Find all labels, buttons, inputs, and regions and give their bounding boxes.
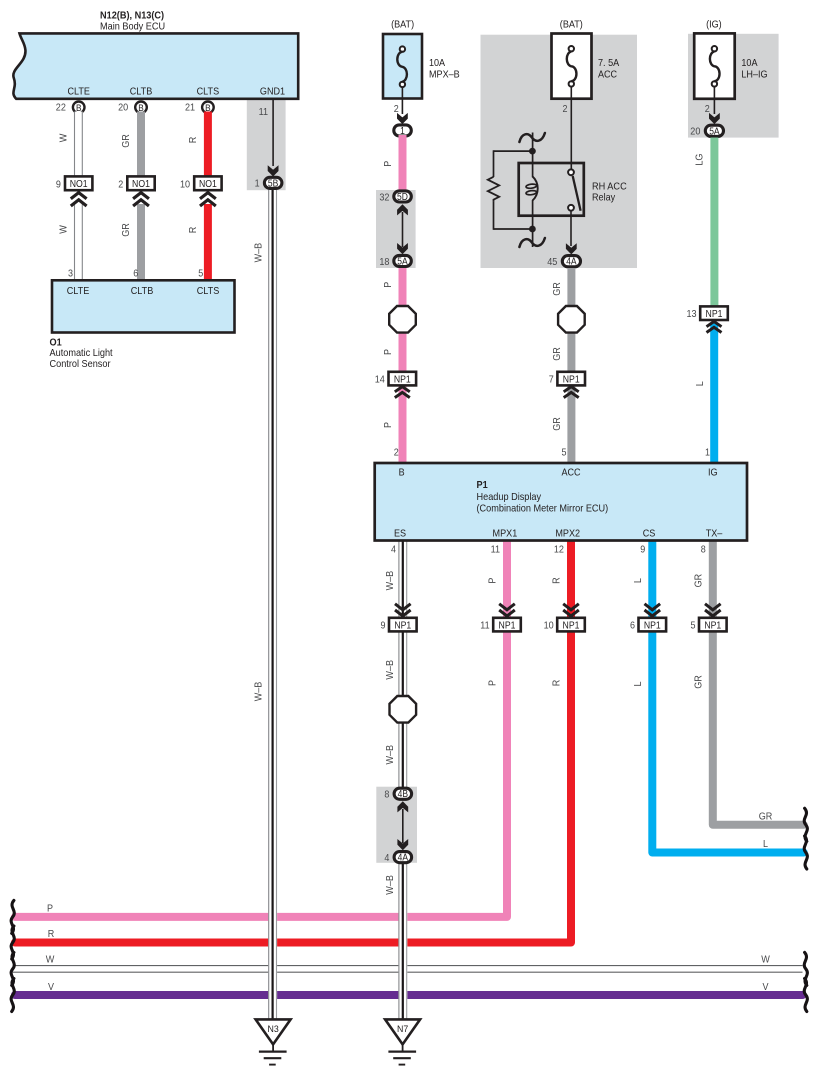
svg-text:W–B: W–B [385, 745, 396, 765]
relay switch contact bottom [568, 205, 574, 211]
relay switch contact top [568, 169, 574, 175]
svg-text:NP1: NP1 [706, 309, 723, 320]
arrow into 5B [268, 165, 279, 176]
connector NP1 pin 9 [389, 618, 417, 632]
svg-text:20: 20 [690, 127, 700, 138]
svg-text:NP1: NP1 [394, 620, 411, 631]
svg-text:NO1: NO1 [70, 179, 88, 190]
link wire 5D-5A [402, 212, 404, 247]
svg-text:Automatic Light: Automatic Light [50, 348, 113, 359]
relay coil wire [532, 163, 534, 177]
svg-text:CLTS: CLTS [197, 286, 220, 297]
arrow up to 5D [397, 204, 408, 215]
svg-text:18: 18 [379, 257, 389, 268]
svg-text:Relay: Relay [592, 193, 616, 204]
junction dot bottom [529, 226, 536, 233]
svg-text:11: 11 [259, 107, 269, 118]
connector 4A pin 45 [562, 256, 580, 267]
svg-text:(BAT): (BAT) [391, 20, 414, 31]
svg-text:2: 2 [394, 104, 399, 115]
wire R (red) MPX2 to left edge [15, 542, 571, 943]
svg-text:MPX1: MPX1 [493, 528, 518, 539]
svg-text:N12(B), N13(C): N12(B), N13(C) [100, 11, 164, 22]
svg-text:12: 12 [554, 544, 564, 555]
svg-text:MPX2: MPX2 [555, 528, 580, 539]
svg-text:W: W [761, 954, 770, 965]
svg-text:7: 7 [549, 374, 554, 385]
svg-text:L: L [695, 381, 706, 386]
fuse 10A LH-IG box [694, 33, 735, 98]
svg-text:R: R [552, 577, 563, 584]
svg-text:P: P [47, 904, 53, 915]
svg-text:TX–: TX– [706, 528, 723, 539]
svg-text:GR: GR [552, 282, 563, 296]
svg-text:P: P [488, 680, 499, 686]
svg-text:N7: N7 [397, 1024, 408, 1034]
svg-text:2: 2 [394, 447, 399, 458]
wire W-B from ES to splice 4B [398, 541, 407, 789]
wire W CLTE to NO1 [74, 112, 83, 178]
wavy break top [519, 133, 545, 142]
svg-text:(IG): (IG) [706, 20, 722, 31]
splice 4A pin 4 [394, 852, 412, 863]
svg-text:NP1: NP1 [704, 620, 721, 631]
svg-text:14: 14 [375, 374, 385, 385]
svg-text:(BAT): (BAT) [560, 20, 583, 31]
svg-text:L: L [633, 681, 644, 686]
connector NP1 pin 11 [493, 618, 521, 632]
splice 5D pin 32 [394, 191, 412, 202]
svg-text:NP1: NP1 [563, 620, 580, 631]
connector NP1 pin 14 [389, 372, 417, 386]
svg-text:W: W [46, 954, 55, 965]
connector NP1 pin 6 [639, 618, 667, 632]
ECU P1 Headup Display box [375, 463, 747, 541]
svg-text:11: 11 [480, 621, 490, 632]
wire R CLTS to NO1 [204, 112, 212, 178]
svg-text:6: 6 [133, 269, 138, 280]
ground N7 [385, 1019, 420, 1044]
svg-text:P: P [488, 577, 499, 583]
fuse 7.5A ACC box [552, 34, 592, 99]
svg-text:NP1: NP1 [644, 620, 661, 631]
svg-text:O1: O1 [50, 338, 62, 349]
svg-text:2: 2 [563, 104, 568, 115]
wire W-B from splice 4A to ground N7 [398, 863, 407, 1020]
resistor branch bottom wire [493, 202, 495, 230]
svg-text:10: 10 [180, 180, 190, 191]
svg-text:5B: 5B [268, 178, 278, 189]
relay coil top junction wire [532, 133, 534, 164]
svg-text:P: P [383, 161, 394, 167]
svg-text:R: R [188, 137, 199, 144]
svg-text:CLTB: CLTB [131, 286, 154, 297]
relay coil [533, 177, 538, 201]
svg-text:22: 22 [56, 102, 66, 113]
svg-text:10A: 10A [429, 58, 445, 69]
svg-text:13: 13 [687, 309, 697, 320]
connector 5B pin 1 [264, 177, 282, 188]
svg-text:CLTE: CLTE [67, 286, 90, 297]
relay switch blade [573, 176, 581, 211]
wire L NP1 to IG pin [710, 323, 718, 463]
svg-text:W–B: W–B [385, 660, 396, 680]
svg-text:5: 5 [562, 447, 567, 458]
wire P fuse side [399, 135, 407, 197]
svg-text:ACC: ACC [561, 468, 581, 479]
svg-text:W–B: W–B [385, 571, 396, 591]
wire W-B from GND1 5B to ground N3 [268, 190, 277, 1020]
svg-text:R: R [552, 680, 563, 687]
break brace V right [804, 979, 807, 1012]
shaded area GND1 branch [247, 100, 286, 191]
chevron into NP1 [395, 387, 410, 392]
svg-text:(Combination Meter Mirror ECU): (Combination Meter Mirror ECU) [477, 504, 609, 515]
svg-text:4B: 4B [398, 789, 408, 800]
svg-text:P: P [383, 282, 394, 288]
svg-text:LH–IG: LH–IG [741, 70, 767, 81]
svg-text:V: V [48, 982, 54, 993]
svg-text:V: V [763, 982, 769, 993]
svg-text:6: 6 [630, 621, 635, 632]
svg-text:5A: 5A [397, 257, 408, 268]
shaded area IG fuse block [688, 34, 779, 138]
pin 20 circle B [135, 102, 147, 114]
svg-text:N3: N3 [267, 1024, 278, 1034]
svg-text:B: B [76, 103, 82, 113]
arrow up to 4B [397, 801, 408, 812]
break brace R left [11, 926, 14, 959]
wire GR CLTB to NO1 [137, 112, 145, 178]
svg-text:CLTS: CLTS [197, 87, 220, 98]
svg-text:W–B: W–B [254, 682, 265, 702]
svg-text:21: 21 [185, 102, 195, 113]
chevron into NP1 [645, 604, 661, 610]
connector NP1 pin 13 [700, 306, 728, 320]
wire L (blue) CS to right edge [652, 542, 803, 853]
chevron into NP1 [707, 322, 722, 327]
svg-text:10A: 10A [741, 58, 757, 69]
shield octagon on P wire [389, 306, 416, 333]
svg-text:Headup Display: Headup Display [477, 492, 542, 503]
ECU N12 N13 Main Body ECU box [13, 33, 298, 98]
wire GR (gray) TX- to right edge [713, 542, 804, 825]
svg-text:P: P [383, 349, 394, 355]
svg-text:Main Body ECU: Main Body ECU [100, 22, 165, 33]
svg-text:2: 2 [118, 180, 123, 191]
svg-text:W–B: W–B [254, 243, 265, 263]
arrow into connector 1 [397, 113, 408, 124]
svg-text:8: 8 [701, 544, 706, 555]
connector NP1 pin 10 [557, 618, 585, 632]
svg-text:5: 5 [691, 621, 696, 632]
wire P (pink) MPX1 to left edge [15, 542, 507, 917]
wire P splice to headup display B [399, 261, 407, 463]
shaded area splice 4B-4A [376, 787, 417, 863]
wire relay to 4A [570, 211, 572, 246]
svg-text:GR: GR [552, 417, 563, 431]
svg-text:GND1: GND1 [260, 87, 285, 98]
svg-text:9: 9 [640, 544, 645, 555]
svg-text:32: 32 [379, 192, 389, 203]
chevron into NP1 [499, 604, 515, 610]
arrow down to 4A [397, 839, 408, 850]
connector oval 1 [394, 125, 412, 136]
shaded area ACC relay block [481, 35, 638, 268]
junction dot top [529, 148, 536, 155]
connector NO1 pin 2 [127, 176, 154, 190]
svg-text:NP1: NP1 [394, 374, 411, 385]
break brace GR right [804, 808, 807, 841]
svg-text:B: B [138, 103, 144, 113]
shaded area splice 5D-5A [376, 190, 416, 268]
wire GND1 to 5B [272, 99, 274, 166]
svg-text:9: 9 [56, 180, 61, 191]
svg-text:NO1: NO1 [199, 179, 217, 190]
wavy break bottom [519, 238, 545, 247]
svg-text:9: 9 [381, 621, 386, 632]
fuse symbol [569, 46, 574, 51]
svg-text:45: 45 [547, 257, 557, 268]
connector 5A pin 20 [705, 125, 723, 136]
svg-text:GR: GR [693, 675, 704, 689]
svg-text:CLTE: CLTE [67, 87, 90, 98]
pin 21 circle B [202, 102, 214, 114]
svg-text:CLTB: CLTB [130, 87, 153, 98]
svg-text:P: P [383, 422, 394, 428]
connector NP1 pin 5 [699, 618, 727, 632]
chevron into NP1 [705, 604, 721, 610]
svg-text:10: 10 [544, 621, 554, 632]
svg-text:4A: 4A [566, 257, 577, 268]
svg-text:GR: GR [121, 223, 132, 237]
relay RH ACC box [519, 163, 584, 216]
svg-text:CS: CS [643, 528, 656, 539]
shield octagon on GR wire [558, 306, 585, 333]
arrow down to 5A [397, 243, 408, 254]
sensor O1 box [52, 280, 235, 332]
svg-text:NO1: NO1 [132, 179, 150, 190]
wire W NO1 to sensor pin 3 [74, 204, 83, 281]
svg-text:MPX–B: MPX–B [429, 70, 460, 81]
wire R NO1 to sensor pin 5 [204, 204, 212, 281]
break brace W right [804, 952, 807, 985]
fuse 10A MPX-B box [383, 34, 422, 99]
splice 5A pin 18 [394, 255, 412, 266]
connector NO1 pin 10 [194, 176, 221, 190]
svg-text:GR: GR [121, 134, 132, 148]
svg-text:ES: ES [394, 528, 406, 539]
svg-text:R: R [188, 227, 199, 234]
arrow into 5A [709, 113, 720, 124]
svg-text:1: 1 [255, 179, 260, 190]
svg-text:NP1: NP1 [563, 374, 580, 385]
svg-text:GR: GR [552, 347, 563, 361]
pin 22 circle B [73, 102, 85, 114]
wire fuse to connector 1 [401, 87, 403, 114]
wire GR NO1 to sensor pin 6 [137, 204, 145, 281]
shield octagon on W-B wire [390, 696, 417, 723]
splice 4B pin 8 [394, 788, 412, 799]
connector NP1 pin 7 [557, 372, 585, 386]
break brace L right [804, 836, 807, 869]
wire GR 4A to ACC pin [567, 268, 575, 463]
svg-text:5D: 5D [397, 192, 408, 203]
chevron into NP1 [563, 604, 579, 610]
svg-text:20: 20 [118, 102, 128, 113]
svg-text:GR: GR [693, 574, 704, 588]
svg-text:W–B: W–B [385, 875, 396, 895]
wire fuse to 5A [713, 87, 715, 114]
svg-text:4A: 4A [398, 853, 409, 864]
svg-text:B: B [399, 468, 405, 479]
resistor branch top wire [494, 150, 533, 152]
link wire 4B-4A [402, 809, 404, 843]
svg-text:LG: LG [695, 154, 706, 166]
wire LG 5A to NP1 [710, 138, 718, 314]
svg-text:L: L [633, 578, 644, 583]
svg-text:5A: 5A [709, 126, 720, 137]
break brace P left [11, 900, 14, 933]
svg-text:8: 8 [384, 790, 389, 801]
svg-text:P1: P1 [477, 480, 488, 491]
svg-text:R: R [48, 929, 55, 940]
svg-text:GR: GR [759, 812, 773, 823]
svg-text:W: W [59, 133, 70, 142]
svg-text:4: 4 [384, 853, 389, 864]
svg-text:RH ACC: RH ACC [592, 181, 627, 192]
svg-text:W: W [59, 225, 70, 234]
svg-text:7. 5A: 7. 5A [598, 58, 619, 69]
svg-text:NP1: NP1 [499, 620, 516, 631]
svg-text:1: 1 [705, 447, 710, 458]
chevron into NP1 [395, 604, 411, 610]
arrow into 4A [566, 243, 577, 254]
resistor zigzag [488, 177, 499, 202]
ground N3 [256, 1019, 291, 1044]
wire fuse to relay switch [570, 87, 572, 170]
svg-text:3: 3 [68, 269, 73, 280]
wire W (white) bus full width [13, 965, 803, 967]
svg-text:4: 4 [391, 544, 396, 555]
wire V (purple) bus full width [15, 991, 803, 999]
svg-text:Control Sensor: Control Sensor [50, 359, 111, 370]
svg-text:L: L [763, 839, 768, 850]
svg-text:5: 5 [198, 269, 203, 280]
svg-text:IG: IG [708, 468, 718, 479]
connector NO1 pin 9 [65, 176, 92, 190]
chevron into NP1 [564, 387, 579, 392]
break brace W left [11, 952, 14, 985]
fuse symbol [400, 46, 405, 51]
break brace V left [11, 979, 14, 1012]
fuse symbol [712, 46, 717, 51]
svg-text:11: 11 [491, 544, 501, 555]
svg-text:ACC: ACC [598, 70, 618, 81]
svg-text:B: B [205, 103, 211, 113]
